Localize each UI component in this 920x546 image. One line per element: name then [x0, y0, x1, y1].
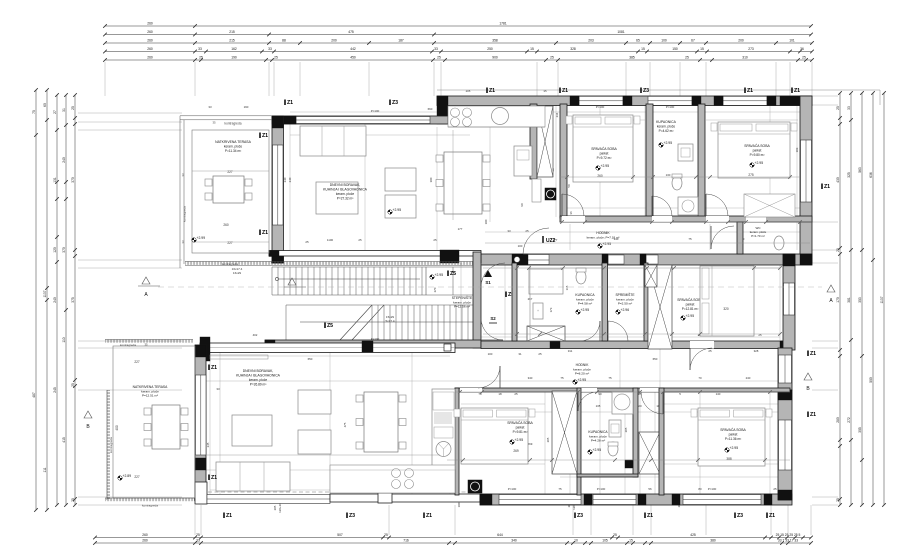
svg-text:110: 110 [62, 337, 66, 342]
door gap middle band [690, 341, 714, 349]
svg-text:328: 328 [754, 349, 759, 353]
stair mid lines [286, 304, 480, 306]
svg-text:Z3: Z3 [349, 513, 355, 519]
bed 3 [700, 266, 754, 336]
svg-text:33: 33 [181, 240, 185, 244]
interior guide line v [709, 224, 711, 250]
svg-text:+2.95: +2.95 [515, 438, 524, 442]
svg-text:644: 644 [497, 533, 503, 537]
pier living left b [272, 252, 284, 263]
shaft x-box lower1 (closet bed4) [552, 391, 577, 474]
extension line top [440, 62, 442, 96]
extension line top [104, 62, 106, 96]
svg-text:25: 25 [305, 240, 309, 244]
dim chain upper corridor [560, 221, 812, 223]
svg-text:120: 120 [53, 247, 57, 253]
svg-text:33: 33 [208, 105, 212, 109]
svg-text:Z1: Z1 [426, 513, 432, 519]
roof overhang line right [879, 90, 881, 105]
interior vert chain kitchen [452, 130, 454, 220]
window: lower bottom 2 [499, 495, 581, 505]
svg-text:75: 75 [558, 487, 562, 491]
svg-text:kontragreda: kontragreda [222, 262, 238, 266]
interior dim chain bedrooms [560, 176, 800, 178]
door arc sprem mid [608, 321, 628, 341]
svg-text:70: 70 [698, 376, 702, 380]
svg-text:25: 25 [437, 56, 441, 60]
svg-text:STEPENIŠTE: STEPENIŠTE [452, 295, 473, 300]
roof overhang line [437, 89, 880, 91]
door arc stair2 [481, 318, 503, 340]
level mark sprem [616, 310, 620, 314]
svg-text:50: 50 [567, 184, 571, 188]
interior guide line v [769, 392, 771, 494]
sofa lower [216, 462, 290, 491]
svg-text:200: 200 [738, 39, 744, 43]
wall: bath/bed2 partition [698, 104, 705, 218]
extension line bottom [770, 505, 772, 535]
svg-text:10: 10 [574, 539, 578, 543]
window ledge line lower top [210, 347, 455, 349]
storage xbox bath2 [527, 326, 565, 341]
svg-text:SPAVAĆA SOBA: SPAVAĆA SOBA [720, 427, 746, 432]
right dimension column 2 [850, 93, 852, 505]
marker Z1 bottom row b [423, 513, 425, 519]
svg-text:273: 273 [748, 47, 754, 51]
pier lower bottom e [764, 494, 772, 505]
extension line bottom [454, 505, 456, 535]
svg-text:388: 388 [726, 457, 732, 461]
section marker B left [84, 411, 92, 418]
svg-text:Z1: Z1 [262, 133, 268, 139]
interior guide line [461, 463, 545, 465]
fridge upper [514, 146, 532, 176]
svg-text:240: 240 [62, 157, 66, 163]
toilet bath1 [672, 176, 682, 190]
svg-text:KUPAONICA: KUPAONICA [588, 430, 608, 434]
svg-text:25: 25 [71, 383, 75, 387]
svg-text:Z1: Z1 [226, 513, 232, 519]
svg-text:200: 200 [331, 39, 337, 43]
svg-text:25: 25 [802, 56, 806, 60]
bottom dimension row 1 [95, 537, 811, 539]
interior guide line v [639, 392, 641, 494]
svg-text:650: 650 [308, 357, 313, 361]
terrace outline (upper) [192, 130, 269, 253]
svg-text:25: 25 [550, 56, 554, 60]
wall: bath2/sprem partition [602, 263, 608, 341]
svg-text:kontragreda: kontragreda [120, 343, 136, 347]
extension line right [812, 95, 838, 97]
window: living left [273, 145, 284, 225]
svg-text:328: 328 [570, 47, 576, 51]
right dimension column 5 [883, 93, 885, 505]
level mark bath2 [576, 310, 580, 314]
svg-text:370: 370 [62, 247, 66, 253]
marker Z1 lower left b [208, 475, 210, 481]
svg-text:15: 15 [700, 47, 704, 51]
svg-text:487: 487 [32, 392, 36, 398]
extension line right [812, 249, 838, 251]
svg-text:260: 260 [142, 539, 148, 543]
marker Z1 bottom row d [766, 513, 768, 519]
svg-text:75: 75 [608, 376, 612, 380]
pier living top a [284, 116, 296, 124]
pier middle right [783, 254, 795, 266]
svg-text:275: 275 [748, 173, 754, 177]
svg-text:SPAVAĆA SOBA: SPAVAĆA SOBA [591, 146, 617, 151]
wall: lower right exterior [778, 390, 792, 500]
svg-text:+2.95: +2.95 [601, 164, 610, 168]
interior guide line v [796, 104, 798, 250]
svg-text:Z1: Z1 [287, 100, 293, 106]
section line A-A [158, 286, 822, 288]
level mark terrace lower [118, 476, 122, 480]
door arc bed3 [690, 348, 712, 370]
svg-text:35: 35 [212, 121, 216, 125]
svg-text:716: 716 [403, 539, 409, 543]
pier lower bottom a [480, 494, 492, 505]
svg-text:keram. ploče; P=7.18 m²: keram. ploče; P=7.18 m² [587, 236, 620, 240]
window: right wall [801, 140, 812, 202]
svg-text:135: 135 [596, 404, 601, 408]
svg-text:P=12.56 m²: P=12.56 m² [454, 305, 470, 309]
svg-text:kontragreda: kontragreda [109, 437, 113, 453]
window in top wall 3 [723, 96, 767, 105]
svg-text:105: 105 [602, 539, 608, 543]
s1 marker [484, 270, 492, 277]
svg-text:Z5: Z5 [450, 271, 456, 277]
svg-text:260: 260 [147, 30, 153, 34]
door arc bed5 low [641, 392, 663, 414]
door gap bath [652, 216, 672, 222]
extension line left [78, 389, 182, 391]
pier in stairs band [440, 250, 459, 263]
svg-text:358: 358 [492, 39, 498, 43]
svg-text:215: 215 [229, 39, 235, 43]
svg-text:370: 370 [71, 177, 75, 183]
svg-text:240: 240 [53, 297, 57, 303]
svg-text:NATKRIVENA TERASA: NATKRIVENA TERASA [133, 385, 168, 389]
stair break line [340, 305, 372, 340]
marker Z1 top c [559, 88, 561, 94]
svg-text:31: 31 [518, 352, 522, 356]
svg-text:Z1: Z1 [211, 365, 217, 371]
svg-text:563: 563 [858, 167, 862, 173]
svg-text:173: 173 [549, 307, 553, 312]
svg-text:269: 269 [513, 449, 519, 453]
extension line top [789, 62, 791, 96]
svg-text:25: 25 [384, 533, 388, 537]
svg-text:475: 475 [343, 422, 347, 427]
svg-text:385: 385 [629, 56, 635, 60]
svg-text:442: 442 [350, 47, 356, 51]
svg-text:305: 305 [858, 427, 862, 433]
level mark living lower [378, 402, 382, 406]
svg-text:33: 33 [196, 539, 200, 543]
svg-text:33: 33 [507, 229, 511, 233]
svg-text:115: 115 [565, 285, 569, 290]
interior guide line v [289, 124, 291, 250]
extension line bottom [810, 505, 812, 535]
washer black lower [468, 480, 482, 493]
coffee table lower [232, 415, 272, 446]
svg-text:P=1.70 m²: P=1.70 m² [751, 234, 764, 238]
svg-text:162: 162 [231, 47, 237, 51]
svg-text:25: 25 [199, 56, 203, 60]
svg-text:130: 130 [666, 173, 671, 177]
svg-text:1137: 1137 [43, 290, 47, 297]
dimension row 3 (top) [105, 42, 812, 44]
svg-text:20: 20 [638, 404, 642, 408]
svg-text:636: 636 [869, 172, 873, 178]
left dimension column 5 [74, 95, 76, 505]
svg-text:+2.95: +2.95 [603, 242, 612, 246]
svg-text:80: 80 [698, 487, 702, 491]
interior guide line v [624, 392, 626, 494]
extension line top [649, 62, 651, 96]
pier top wall e [767, 96, 776, 106]
wall: living top [272, 116, 448, 124]
kitchen counter upper [448, 106, 545, 127]
extension line right [812, 504, 838, 506]
svg-text:25: 25 [433, 238, 437, 242]
door arc bath3 low [578, 392, 597, 411]
svg-text:177: 177 [458, 227, 463, 231]
closet bath2 [529, 269, 563, 294]
svg-text:kontragreda: kontragreda [142, 504, 158, 508]
door gap bed4 [460, 388, 482, 392]
svg-text:P=11.36 m²: P=11.36 m² [725, 437, 741, 441]
svg-text:+2.95: +2.95 [730, 446, 739, 450]
interior guide line v [769, 104, 771, 217]
svg-text:430: 430 [836, 177, 840, 183]
extension line top [194, 62, 196, 96]
pier living left a [272, 116, 284, 128]
svg-text:+2.95: +2.95 [686, 314, 695, 318]
interior dim chain lower2 [206, 454, 440, 456]
interior guide line v [219, 352, 221, 494]
svg-text:100: 100 [661, 39, 667, 43]
svg-text:Z1: Z1 [824, 184, 830, 190]
shaft x-box middle [645, 265, 657, 287]
svg-text:311: 311 [568, 349, 573, 353]
interior guide line v [699, 392, 701, 494]
svg-text:120+20: 120+20 [278, 503, 282, 513]
z5 marker a [447, 271, 449, 277]
svg-text:240: 240 [288, 177, 292, 182]
pier top wall f [780, 96, 812, 106]
stair flight divider [272, 294, 480, 296]
svg-text:SPAVAĆA SOBA: SPAVAĆA SOBA [507, 420, 533, 425]
stove burners upper [451, 108, 460, 117]
window in top wall 1 [579, 96, 623, 105]
wall: middle corridor top band [481, 341, 790, 349]
svg-text:60: 60 [43, 103, 47, 107]
pier stairs bottom [265, 340, 275, 348]
interior guide line [206, 380, 790, 382]
interior guide line [664, 463, 786, 465]
window middle right [784, 283, 795, 315]
svg-text:340: 340 [528, 376, 533, 380]
kitchen unit shelves [433, 392, 454, 410]
extension line left [78, 121, 182, 123]
uz2 marker [542, 236, 544, 243]
level mark bed2 [750, 163, 754, 167]
interior dim chain corridor [485, 242, 810, 244]
level mark bed5 [725, 448, 729, 452]
svg-text:Z1: Z1 [211, 475, 217, 481]
bed 4 [461, 408, 528, 464]
wall: upper right exterior [800, 96, 812, 263]
wall: upper unit top right [437, 96, 812, 106]
svg-text:Z1: Z1 [810, 351, 816, 357]
dimension row 2 (top) [105, 34, 811, 36]
window: lower right wall [779, 420, 792, 470]
pier lower left a [195, 345, 206, 357]
svg-text:+2.95: +2.95 [578, 378, 587, 382]
svg-text:500: 500 [869, 377, 873, 383]
svg-text:25: 25 [525, 229, 529, 233]
extension line top [775, 62, 777, 96]
interior guide line [200, 355, 450, 357]
svg-text:260: 260 [147, 47, 153, 51]
svg-text:Z3: Z3 [577, 513, 583, 519]
svg-text:1081: 1081 [617, 30, 625, 34]
pier top wall c [692, 96, 701, 106]
svg-text:36: 36 [800, 47, 804, 51]
appliance black upper [545, 188, 556, 200]
svg-text:190: 190 [244, 105, 249, 109]
svg-text:67: 67 [691, 39, 695, 43]
svg-text:P=26.89 m²: P=26.89 m² [250, 382, 267, 386]
extension line left [78, 340, 182, 342]
shaft dark lower [625, 460, 633, 468]
wall: corridor bottom exterior [481, 254, 812, 265]
svg-text:P=4.62 m²: P=4.62 m² [659, 129, 674, 133]
closet x-box middle [648, 265, 672, 349]
wall: bed4 left partition [455, 388, 459, 495]
extension line right [812, 347, 838, 349]
wall: bed5 left partition [659, 388, 664, 495]
sofa upper living [300, 126, 366, 156]
armchairs lower [298, 390, 331, 414]
svg-text:HODNIK: HODNIK [576, 363, 590, 367]
svg-text:P=9.80 m²: P=9.80 m² [750, 153, 765, 157]
svg-text:DNEVNI BORAVAK,: DNEVNI BORAVAK, [243, 369, 274, 373]
window: lower left wall [196, 375, 207, 455]
pier lower top corner [200, 337, 210, 361]
wall: lower bottom parapet [330, 494, 480, 502]
extension line top [368, 62, 370, 96]
svg-text:33 7 33 17 33: 33 7 33 17 33 [778, 539, 798, 543]
interior guide line v [659, 348, 661, 388]
window corridor wall 1 [608, 255, 624, 264]
svg-text:203: 203 [588, 39, 594, 43]
bath3 south wall [577, 474, 638, 477]
interior guide line v [436, 127, 438, 250]
kontragreda strip top (lower terrace) [105, 339, 193, 341]
interior guide line [706, 119, 798, 121]
svg-text:260: 260 [142, 533, 148, 537]
svg-text:25: 25 [708, 349, 712, 353]
svg-text:56: 56 [648, 487, 652, 491]
svg-text:S1: S1 [485, 280, 491, 285]
entry threshold lines [515, 259, 549, 261]
wall: lower bottom window strip left [207, 495, 330, 504]
interior guide line v [449, 392, 451, 494]
marker Z1 right b [807, 351, 809, 357]
svg-text:227: 227 [227, 241, 233, 245]
interior guide line v [644, 104, 646, 217]
door gap bed1 [562, 216, 585, 222]
svg-text:425: 425 [690, 533, 696, 537]
svg-text:75: 75 [688, 237, 692, 241]
pier lower right a [778, 390, 792, 400]
interior guide line v [489, 127, 491, 222]
bed 5 [698, 408, 765, 466]
interior guide line [664, 403, 786, 405]
svg-text:35: 35 [543, 89, 547, 93]
washbasin bath1 [678, 144, 693, 161]
svg-text:402: 402 [253, 333, 258, 337]
interior guide line v [555, 104, 557, 217]
wall: step connector [437, 96, 448, 124]
extension line bottom [590, 505, 592, 535]
extension line left [78, 504, 182, 506]
section marker A right [827, 285, 835, 292]
svg-text:270: 270 [433, 287, 437, 292]
svg-text:100: 100 [488, 352, 493, 356]
svg-text:HODNIK: HODNIK [596, 231, 610, 235]
svg-text:272: 272 [847, 417, 851, 423]
extension line left [78, 259, 182, 261]
dim chain middle rooms bottom [483, 333, 780, 335]
svg-text:33: 33 [216, 387, 220, 391]
svg-text:353: 353 [858, 297, 862, 303]
dimension row 4 (top) [105, 51, 812, 53]
svg-text:300: 300 [429, 177, 433, 182]
svg-text:SPREMIŠTE: SPREMIŠTE [615, 292, 635, 297]
svg-text:35: 35 [144, 343, 148, 347]
bedside tables bed2 [711, 123, 717, 131]
extension line right [812, 340, 838, 342]
interior guide line v [569, 224, 571, 250]
svg-text:P=12.51 m²: P=12.51 m² [142, 394, 158, 398]
svg-text:+2.95: +2.95 [581, 308, 590, 312]
extension line right [812, 104, 838, 106]
marker Z3 top a [389, 100, 391, 106]
svg-text:33: 33 [198, 47, 202, 51]
level mark terrace upper [192, 238, 196, 242]
door arc entry [523, 228, 549, 254]
extension line top [557, 62, 559, 96]
extension line left [78, 112, 182, 114]
wall: middle right exterior [783, 254, 795, 350]
wall: wc partition [737, 222, 743, 254]
door arc bath1 [652, 196, 672, 216]
stair treads upper flight [271, 267, 273, 295]
svg-text:Z1: Z1 [262, 230, 268, 236]
closet x bed5 [639, 432, 660, 474]
dim chain lower corridor [455, 391, 790, 393]
left dimension column 2 [46, 90, 48, 510]
kitchen counter line [448, 126, 545, 128]
svg-text:280: 280 [836, 417, 840, 423]
svg-text:381: 381 [847, 297, 851, 303]
svg-text:33: 33 [268, 47, 272, 51]
interior guide line v [699, 104, 701, 217]
